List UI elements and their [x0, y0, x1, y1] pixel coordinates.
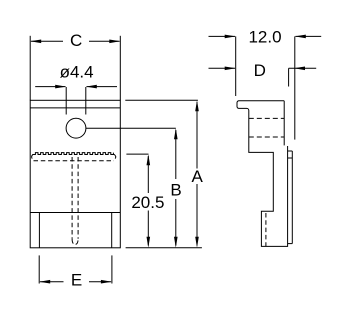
svg-text:D: D: [254, 61, 266, 80]
svg-text:A: A: [192, 167, 204, 186]
svg-text:12.0: 12.0: [248, 28, 281, 47]
svg-text:ø4.4: ø4.4: [60, 63, 94, 82]
svg-text:E: E: [71, 271, 82, 290]
svg-text:C: C: [70, 31, 82, 50]
svg-text:B: B: [170, 180, 181, 199]
svg-text:20.5: 20.5: [131, 193, 164, 212]
